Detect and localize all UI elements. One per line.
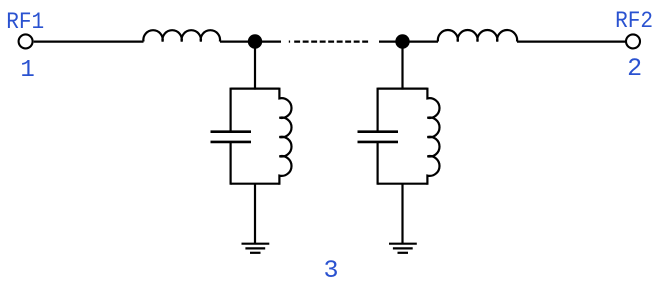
capacitor C1 (211, 132, 252, 142)
wire: inductor L2 to port P2 (517, 40, 626, 42)
wire: port P1 to inductor L1 (34, 40, 144, 42)
wire: tank 2 top edge (378, 87, 428, 89)
node B junction dot (395, 34, 409, 48)
ground GND1 (242, 244, 270, 253)
wire: node B to inductor L2 (403, 40, 439, 42)
wire: tank 1 top edge (231, 87, 280, 89)
wire: tank 2 left side lower (377, 143, 379, 185)
svg-text:RF1: RF1 (6, 9, 44, 35)
ground GND2 (389, 244, 417, 253)
wire: tank 1 left side lower (230, 143, 232, 185)
wire: tank 2 to ground (401, 184, 403, 244)
capacitor C2 (358, 132, 399, 142)
wire: tank 1 to ground (254, 184, 256, 244)
wire: node B down to tank 2 (401, 42, 403, 90)
wire: dashed section to node B (379, 40, 403, 42)
svg-text:2: 2 (627, 54, 642, 83)
wire: node A down to tank 1 (254, 42, 256, 90)
wire: inductor L1 to node A (220, 40, 281, 42)
wire fragment left of dashed section (289, 40, 290, 42)
wire: tank 1 left side upper (230, 88, 232, 131)
dashed wire between node A and node B (294, 40, 368, 42)
wire: tank 1 bottom edge (231, 183, 280, 185)
svg-text:RF2: RF2 (615, 8, 653, 34)
inductor L1 (143, 30, 220, 41)
svg-text:3: 3 (324, 256, 339, 285)
inductor L4 (427, 88, 439, 185)
wire: tank 2 bottom edge (378, 183, 428, 185)
wire: tank 2 left side upper (377, 88, 379, 131)
inductor L3 (279, 88, 291, 185)
port terminal P1 (19, 34, 33, 48)
inductor L2 (438, 30, 517, 42)
node A junction dot (248, 34, 262, 48)
port terminal P2 (626, 34, 640, 48)
svg-text:1: 1 (20, 57, 34, 84)
